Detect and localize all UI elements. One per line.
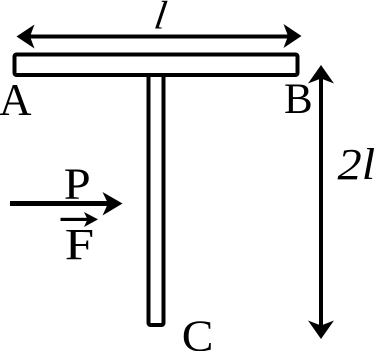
label F bbox=[65, 220, 94, 269]
shaft of l dimension arrow bbox=[30, 35, 288, 39]
bottom arrowhead of 2l dimension arrow bbox=[308, 321, 334, 340]
arrowhead of vector arrow over F bbox=[84, 212, 98, 227]
shaft of force arrow P bbox=[10, 201, 109, 206]
right measure arrow (length 2l), double-headed vertical bbox=[308, 65, 334, 339]
svg-text:F: F bbox=[65, 220, 94, 269]
label l bbox=[152, 0, 170, 37]
shaft of 2l dimension arrow bbox=[319, 78, 323, 326]
arrowhead of force arrow P bbox=[103, 192, 123, 216]
shaft of vector arrow over F bbox=[61, 218, 89, 221]
horizontal bar A-B bbox=[15, 55, 298, 76]
left arrowhead of l dimension arrow bbox=[17, 25, 35, 49]
label P bbox=[64, 160, 91, 209]
vertical stem bar (to C) bbox=[149, 62, 164, 325]
svg-text:P: P bbox=[64, 160, 91, 209]
svg-text:A: A bbox=[0, 75, 32, 125]
top measure arrow (length l), double-headed bbox=[17, 24, 302, 49]
svg-text:2l: 2l bbox=[338, 141, 374, 190]
right arrowhead of l dimension arrow bbox=[284, 24, 302, 48]
top arrowhead of 2l dimension arrow bbox=[308, 65, 334, 84]
svg-text:C: C bbox=[182, 311, 214, 351]
label 2l bbox=[338, 141, 374, 190]
small vector arrow over F bbox=[61, 212, 99, 227]
label C bbox=[182, 311, 214, 351]
arrow P (long force arrow) bbox=[10, 192, 123, 216]
